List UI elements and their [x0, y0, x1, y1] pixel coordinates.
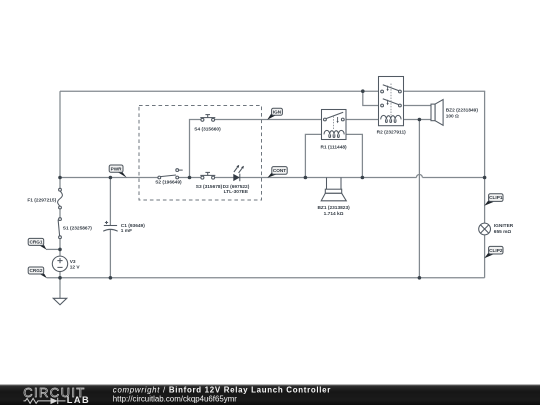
flag IGN — [267, 108, 282, 120]
fuse F1 — [58, 188, 63, 209]
svg-text:V3: V3 — [70, 259, 76, 265]
wire jog top to switch2 — [363, 91, 381, 105]
relay R2 — [379, 77, 404, 126]
node ground — [58, 276, 62, 280]
wire main horizontal right of S3 — [214, 177, 416, 179]
node R1 coil right — [361, 176, 365, 180]
dashed enclosure box — [139, 106, 262, 201]
flag CLIP1 — [484, 194, 503, 206]
capacitor C1 — [103, 221, 118, 231]
svg-text:CONT: CONT — [273, 168, 286, 173]
svg-text:F1 (2297215): F1 (2297215) — [27, 198, 56, 204]
switch S1 — [58, 218, 61, 239]
node R1 coil left — [304, 176, 308, 180]
svg-text:BZ1 (2313823): BZ1 (2313823) — [317, 205, 350, 211]
pushbutton S4 — [200, 115, 215, 122]
wire V3 to bottom — [59, 271, 61, 277]
svg-text:IGN: IGN — [273, 109, 282, 114]
svg-text:CRG2: CRG2 — [29, 268, 42, 273]
wire C1 branch lower — [109, 229, 111, 277]
source V3 — [52, 256, 67, 271]
svg-text:PWR: PWR — [111, 166, 123, 171]
svg-text:12 V: 12 V — [70, 264, 81, 270]
logo zigzag resistor — [24, 398, 51, 403]
node C1 top — [109, 176, 113, 180]
speaker BZ1 — [321, 178, 346, 201]
node CRG1 — [58, 248, 62, 252]
node main-right rail — [483, 176, 487, 180]
svg-text:CLIP1: CLIP1 — [489, 195, 503, 200]
lamp IGNITER — [479, 223, 491, 235]
wire right rail lower — [484, 235, 486, 278]
svg-text:S1 (2325867): S1 (2325867) — [63, 225, 92, 231]
svg-text:S3 (315678): S3 (315678) — [196, 184, 223, 190]
wire IGN line S4 to R1 — [214, 119, 323, 121]
svg-text:LTL-307EE: LTL-307EE — [224, 189, 249, 195]
wire vertical junction drop — [418, 120, 420, 278]
svg-text:1.714 kΩ: 1.714 kΩ — [324, 211, 344, 217]
ground — [53, 298, 67, 305]
node C1 bottom — [109, 276, 113, 280]
wire R2 switch1 to right rail — [401, 90, 485, 92]
flag CLIP2 — [484, 246, 503, 258]
svg-text:compwright / Binford 12V Relay: compwright / Binford 12V Relay Launch Co… — [113, 386, 331, 395]
svg-text:CRG1: CRG1 — [29, 240, 42, 245]
wire bottom rail — [47, 277, 485, 279]
svg-text:C1 (93649): C1 (93649) — [121, 223, 145, 229]
speaker BZ2 — [431, 100, 443, 126]
svg-text:S4 (315660): S4 (315660) — [194, 126, 221, 132]
svg-text:S2 (196649): S2 (196649) — [155, 180, 182, 186]
svg-text:IGNITER: IGNITER — [494, 223, 514, 229]
wire S1 to V3 — [59, 239, 61, 257]
wire main horizontal left — [60, 177, 158, 179]
flag CRG1 — [28, 238, 46, 249]
svg-text:CLIP2: CLIP2 — [489, 248, 503, 253]
wire left rail upper — [59, 91, 61, 188]
node drop bottom — [418, 276, 422, 280]
relay R1 — [322, 110, 347, 140]
pushbutton S3 — [200, 172, 215, 179]
switch S2 — [158, 169, 183, 179]
node main-left — [58, 176, 62, 180]
wire CRG1 stub — [46, 248, 60, 250]
wire hop over vertical — [416, 175, 422, 178]
ground stub — [59, 278, 61, 299]
wire right rail upper — [484, 91, 486, 223]
svg-text:http://circuitlab.com/ckqp4u6f: http://circuitlab.com/ckqp4u6f65ymr — [113, 395, 237, 404]
svg-text:R1 (111448): R1 (111448) — [321, 144, 348, 150]
svg-text:1 mF: 1 mF — [121, 228, 132, 234]
wire top rail — [60, 90, 381, 92]
wire main to right rail — [423, 177, 485, 179]
flag CONT — [267, 167, 287, 178]
svg-text:LAB: LAB — [67, 395, 90, 405]
node S4 branch — [188, 176, 192, 180]
wire R1 to R2 coil — [344, 119, 381, 121]
node top jog — [361, 89, 365, 93]
flag CRG2 — [28, 267, 47, 278]
svg-text:655 mΩ: 655 mΩ — [494, 229, 512, 235]
footer bar — [0, 385, 540, 405]
wire R2 switch2 to BZ2 — [401, 105, 431, 107]
wire S4 branch vertical — [190, 120, 202, 178]
svg-text:R2 (2327911): R2 (2327911) — [377, 129, 406, 135]
wire F1 to S1 — [59, 209, 61, 218]
node coil BZ2 drop — [418, 118, 422, 122]
svg-text:100 Ω: 100 Ω — [446, 113, 459, 119]
wire R1 coil right lead — [346, 134, 362, 177]
wire R1 coil left lead — [305, 134, 321, 177]
wire main horizontal mid — [179, 177, 202, 179]
logo diode — [51, 398, 58, 404]
wire C1 branch upper — [109, 178, 111, 226]
wire R2 coil to BZ2 — [401, 119, 431, 121]
LED D2 — [233, 165, 244, 181]
flag PWR — [109, 165, 127, 178]
svg-text:BZ2 (2231849): BZ2 (2231849) — [446, 107, 479, 113]
